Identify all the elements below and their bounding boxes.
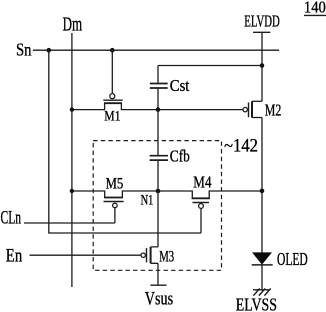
wire Sn scan line (33, 49, 279, 51)
wire M4 gate riser (200, 208, 202, 233)
transistor M3 body (151, 247, 158, 285)
ELVDD terminal T-bar (253, 31, 270, 33)
transistor M3 gate bar (146, 248, 148, 262)
node junction Dm / N1 row (70, 189, 74, 193)
transistor M1 channel bar emphasis (104, 102, 122, 104)
node junction Sn / M1 gate riser (110, 48, 115, 53)
svg-text:ELVSS: ELVSS (236, 294, 277, 312)
svg-text:M5: M5 (106, 176, 124, 193)
svg-text:M3: M3 (159, 249, 174, 266)
transistor M3 channel bar (150, 247, 152, 263)
wire Dm data line column (71, 33, 73, 287)
svg-text:Cfb: Cfb (170, 147, 190, 166)
transistor M4 channel bar emphasis (192, 197, 210, 199)
wire N1 down to M3 (157, 191, 159, 247)
transistor M2 gate bubble (243, 107, 247, 111)
dashed feedback block boundary 142 (93, 141, 221, 271)
node junction M4 / OLED column (260, 189, 265, 194)
transistor M2 source connection (252, 100, 262, 102)
svg-text:CLn: CLn (1, 208, 22, 229)
svg-text:En: En (6, 245, 23, 266)
svg-text:ELVDD: ELVDD (244, 11, 280, 30)
transistor M4 gate bubble (199, 204, 204, 209)
wire node N1 row with M5 and M4 channels (72, 191, 262, 198)
svg-text:OLED: OLED (277, 249, 308, 269)
transistor M3 gate bubble (141, 253, 145, 257)
svg-text:N1: N1 (141, 193, 154, 209)
svg-text:Cst: Cst (170, 76, 190, 95)
svg-text:Vsus: Vsus (145, 289, 173, 309)
transistor M1 gate riser (111, 50, 113, 93)
transistor M4 gate bar (193, 202, 210, 204)
svg-text:140: 140 (304, 0, 326, 16)
wire OLED cathode to ELVSS (261, 265, 263, 290)
transistor M5 gate bubble (113, 203, 118, 208)
node junction ELVDD / Cst (260, 63, 265, 68)
wire Cst top plate to ELVDD (158, 65, 262, 67)
ELVSS chassis ground symbol (253, 289, 271, 296)
transistor M1 gate bubble (110, 94, 115, 99)
transistor M2 drain connection (252, 117, 262, 119)
node junction Cst bottom / M1 drain / M2 gate (156, 107, 161, 112)
wire M5 gate drop (114, 208, 116, 223)
diode OLED anode triangle (252, 252, 272, 264)
wire M2 drain down to OLED (261, 118, 263, 253)
diode OLED cathode bar (252, 264, 273, 266)
wire Sn drop to M4 gate row (49, 50, 201, 233)
svg-text:~142: ~142 (224, 137, 258, 157)
svg-text:M4: M4 (193, 172, 212, 191)
transistor M2 gate bar (248, 103, 250, 118)
Vsus terminal T-bar (150, 284, 166, 286)
transistor M5 gate bar (104, 201, 124, 203)
wire ELVDD column (261, 32, 263, 101)
svg-text:M1: M1 (104, 109, 120, 125)
wire En to M3 gate (30, 254, 142, 256)
capacitor Cfb (150, 110, 168, 191)
svg-text:Dm: Dm (63, 14, 83, 36)
capacitor Cst (150, 66, 168, 110)
node junction Sn / gate-feed drop (47, 48, 52, 53)
underline of 140 (304, 14, 326, 16)
svg-text:Sn: Sn (16, 40, 32, 60)
transistor M1 channel and source/drain wire (72, 103, 243, 109)
transistor M5 channel bar emphasis (104, 197, 123, 199)
transistor M1 gate bar (103, 99, 122, 101)
transistor M2 channel bar (251, 101, 253, 117)
wire CLn to M5 gate (24, 222, 115, 224)
node junction N1 / Cfb (156, 189, 161, 194)
node junction Dm / M1 source (70, 107, 74, 111)
svg-text:M2: M2 (265, 100, 282, 119)
